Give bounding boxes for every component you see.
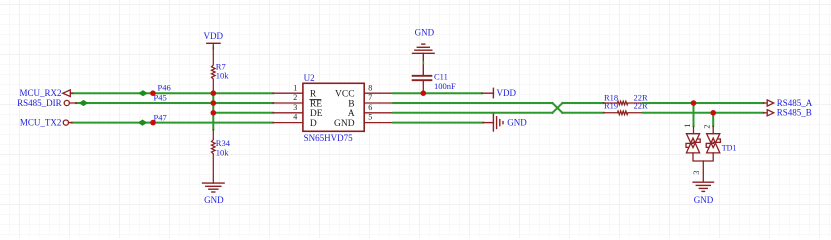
wire pin6 (A) bbox=[393, 112, 552, 114]
junction dot P47 bbox=[150, 120, 156, 126]
svg-text:VCC: VCC bbox=[335, 89, 355, 99]
junction dot P46 bbox=[150, 90, 156, 96]
pin 2 lead bbox=[712, 126, 714, 134]
wire pin5 to GND bbox=[393, 122, 483, 124]
bottom bracket bbox=[693, 153, 713, 161]
svg-text:VDD: VDD bbox=[204, 31, 224, 41]
junction dot C11 bbox=[421, 90, 427, 96]
resistor R19 bbox=[604, 111, 643, 115]
power VDD flag right bbox=[482, 88, 494, 97]
svg-text:TD1: TD1 bbox=[722, 143, 737, 152]
pin 4 (D) bbox=[273, 122, 303, 124]
junction vertical-row2 bbox=[211, 100, 217, 106]
wire R19 to RS485_B bbox=[643, 112, 764, 114]
pin 1 lead bbox=[693, 126, 695, 134]
port RS485_DIR bbox=[64, 100, 76, 105]
svg-text:GND: GND bbox=[204, 195, 224, 205]
svg-text:4: 4 bbox=[293, 113, 297, 122]
svg-text:A: A bbox=[348, 109, 355, 119]
svg-text:3: 3 bbox=[692, 171, 701, 175]
svg-text:GND: GND bbox=[334, 119, 355, 129]
svg-text:6: 6 bbox=[368, 103, 372, 112]
ground above C11 (inverted) bbox=[413, 44, 435, 75]
diode 1 bbox=[686, 134, 699, 148]
junction dot A bbox=[691, 100, 697, 106]
wire pin7 (B) bbox=[393, 102, 552, 104]
svg-text:1: 1 bbox=[293, 83, 297, 92]
wire RS485_DIR row2 bbox=[76, 102, 273, 104]
svg-text:7: 7 bbox=[368, 93, 372, 102]
pin 7 (B) bbox=[364, 102, 393, 104]
svg-text:RS485_B: RS485_B bbox=[777, 108, 812, 118]
resistor R34 bbox=[212, 130, 216, 184]
pin 5 (GND) bbox=[364, 122, 393, 124]
wire TD1 pin2 drop bbox=[712, 113, 714, 126]
svg-text:5: 5 bbox=[368, 113, 372, 122]
probe diamond P46 bbox=[138, 90, 148, 96]
wire vertical bias net bbox=[212, 93, 214, 129]
port RS485_A bbox=[763, 100, 773, 106]
svg-text:MCU_TX2: MCU_TX2 bbox=[20, 117, 62, 127]
svg-text:MCU_RX2: MCU_RX2 bbox=[19, 88, 61, 98]
svg-text:2: 2 bbox=[702, 125, 711, 129]
svg-text:VDD: VDD bbox=[497, 88, 517, 98]
junction vertical-row1 bbox=[211, 90, 217, 96]
pin 6 (A) bbox=[364, 112, 393, 114]
svg-text:8: 8 bbox=[368, 83, 372, 92]
port RS485_B bbox=[763, 110, 773, 116]
svg-text:P46: P46 bbox=[158, 82, 171, 92]
IC U2 body bbox=[303, 83, 364, 131]
svg-text:22R: 22R bbox=[634, 100, 649, 110]
junction vertical-row3 bbox=[211, 110, 217, 116]
svg-text:10k: 10k bbox=[216, 147, 230, 157]
svg-text:C11: C11 bbox=[434, 71, 448, 81]
svg-text:100nF: 100nF bbox=[434, 81, 456, 91]
svg-text:U2: U2 bbox=[304, 73, 315, 83]
svg-text:B: B bbox=[348, 99, 354, 109]
svg-text:RS485_DIR: RS485_DIR bbox=[17, 98, 62, 108]
svg-text:GND: GND bbox=[415, 27, 435, 37]
svg-text:DE: DE bbox=[310, 109, 323, 119]
wire pin8 to VDD bbox=[393, 92, 482, 94]
wire MCU_TX2 row4 bbox=[72, 122, 274, 124]
pin-end tick R7/VDD bbox=[212, 47, 214, 48]
pin 3 (DE) bbox=[273, 112, 303, 114]
probe diamond row2 bbox=[79, 100, 89, 106]
ground below R34 bbox=[203, 183, 225, 192]
pin 2 (RE) bbox=[273, 102, 303, 104]
svg-text:GND: GND bbox=[507, 118, 527, 128]
svg-text:R19: R19 bbox=[604, 100, 618, 110]
svg-text:2: 2 bbox=[293, 93, 297, 102]
pin-end tick C11/GND bbox=[422, 62, 424, 63]
wire to R19 bbox=[562, 112, 603, 114]
pin 1 (R) bbox=[273, 92, 303, 94]
svg-text:1: 1 bbox=[683, 124, 692, 128]
resistor R18 bbox=[604, 101, 643, 105]
wire MCU_RX2 row1 bbox=[72, 92, 273, 94]
svg-text:3: 3 bbox=[293, 103, 297, 112]
diode 2 bbox=[707, 134, 720, 148]
capacitor C11 bbox=[413, 76, 432, 80]
svg-text:GND: GND bbox=[694, 195, 714, 205]
svg-text:SN65HVD75: SN65HVD75 bbox=[304, 133, 354, 143]
power VDD top bbox=[207, 42, 220, 44]
ground below TD1 bbox=[693, 182, 713, 191]
svg-text:10k: 10k bbox=[216, 70, 230, 80]
wire row3 (DE) bbox=[213, 112, 273, 114]
resistor R7 bbox=[212, 43, 216, 93]
pin 3 lead bbox=[702, 161, 704, 182]
ground right (rotated) bbox=[483, 114, 503, 131]
TVS TD1 bbox=[686, 126, 720, 182]
svg-text:P47: P47 bbox=[154, 112, 167, 122]
probe diamond P47 bbox=[138, 120, 148, 126]
pin 8 (VCC) bbox=[364, 92, 393, 94]
svg-text:D: D bbox=[310, 119, 317, 129]
port MCU_RX2 bbox=[63, 90, 73, 97]
wire crossover bbox=[552, 103, 562, 113]
wire R18 to RS485_A bbox=[643, 102, 764, 104]
junction dot B bbox=[710, 110, 716, 116]
svg-text:R: R bbox=[310, 89, 317, 99]
svg-text:P45: P45 bbox=[154, 93, 167, 103]
svg-text:RE: RE bbox=[310, 99, 322, 109]
wire to R18 bbox=[562, 102, 603, 104]
wire TD1 pin1 drop bbox=[693, 103, 695, 126]
svg-text:RS485_A: RS485_A bbox=[777, 98, 813, 108]
port MCU_TX2 bbox=[63, 120, 72, 125]
